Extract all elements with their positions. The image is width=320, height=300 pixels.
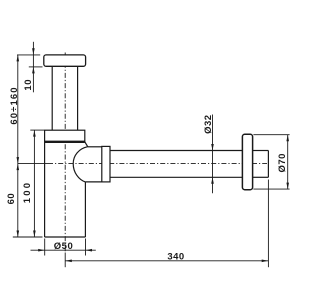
dimension Ø50 arrow right [38,249,45,252]
dimension 340 arrow left [65,260,72,263]
dimension Ø32 line [212,115,214,194]
dimension Ø70 arrow down [286,183,289,190]
svg-text:60÷160: 60÷160 [9,86,20,124]
dimension Ø50 arrow left [86,249,93,252]
dimension 10 arrow up [32,67,35,74]
dimension 60÷160 arrow up [17,55,20,62]
extension line flange bottom [29,66,43,68]
dimension Ø50 line [31,249,96,251]
svg-text:10: 10 [23,79,34,91]
dimension 10 line [32,42,34,93]
centerline vertical axis of trap body [64,53,66,253]
extension line body bottom left [13,236,43,238]
body trap cup [44,142,46,237]
wall pipe stub [253,150,269,152]
dimension Ø32 arrow up [211,177,214,184]
extension line body top [30,129,44,131]
tube vertical inlet pipe [51,67,53,131]
dimension 60÷160 line [17,55,19,164]
dimension Ø32 arrow down [211,144,214,151]
dimension 100 arrow up [33,130,36,137]
dimension 60 arrow up [17,164,20,171]
svg-text:340: 340 [167,252,184,263]
dimension 60 arrow down [17,231,20,238]
dimension Ø70 arrow up [286,135,289,142]
extension line body bottom right corner [85,239,87,256]
dimension 60÷160 arrow down [17,157,20,164]
dimension 100 arrow down [33,231,36,238]
union nut [102,146,110,182]
flange F1 top rosette [44,55,86,66]
extension line body centerline bottom [64,253,66,268]
extension line body bottom left corner [44,239,46,256]
svg-text:Ø32: Ø32 [203,114,214,133]
body cap nut [45,130,85,142]
dimension Ø70 line [287,135,289,189]
pipe horizontal outlet [110,150,242,152]
dimension 100 line [33,130,35,237]
wall flange rosette [242,134,252,189]
extension line flange top [17,54,40,56]
extension line wall end [267,180,269,268]
dimension 10 arrow down [32,48,35,55]
elbow outlet [85,142,88,147]
svg-text:60: 60 [6,193,17,205]
dimension 60 line [17,164,19,237]
extension line wall flange top [253,134,289,136]
pipe centerline horizontal axis [18,163,48,165]
extension line wall flange bottom [253,188,289,190]
svg-text:100: 100 [22,181,33,203]
dimension 340 arrow right [262,260,269,263]
svg-text:Ø70: Ø70 [277,153,288,172]
svg-text:Ø50: Ø50 [54,241,73,252]
dimension 340 line [65,260,268,262]
